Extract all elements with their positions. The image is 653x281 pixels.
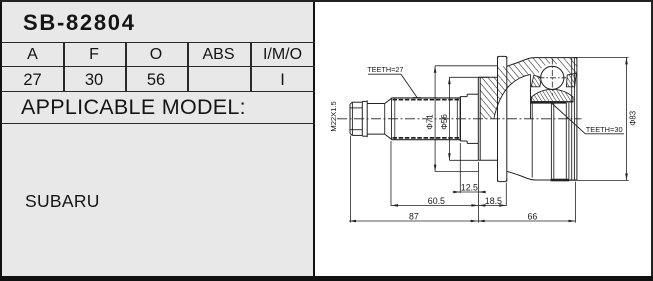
svg-text:Φ71: Φ71 (426, 114, 435, 130)
svg-text:Φ83: Φ83 (629, 111, 638, 126)
svg-text:87: 87 (409, 211, 419, 221)
svg-text:60.5: 60.5 (428, 196, 445, 206)
svg-text:TEETH=27: TEETH=27 (367, 65, 403, 74)
svg-text:TEETH=30: TEETH=30 (586, 125, 623, 134)
svg-text:Φ56: Φ56 (440, 114, 449, 130)
svg-text:12.5: 12.5 (461, 182, 478, 192)
svg-text:M22X1.5: M22X1.5 (329, 101, 338, 131)
svg-text:66: 66 (528, 212, 538, 222)
svg-text:18.5: 18.5 (485, 196, 502, 206)
